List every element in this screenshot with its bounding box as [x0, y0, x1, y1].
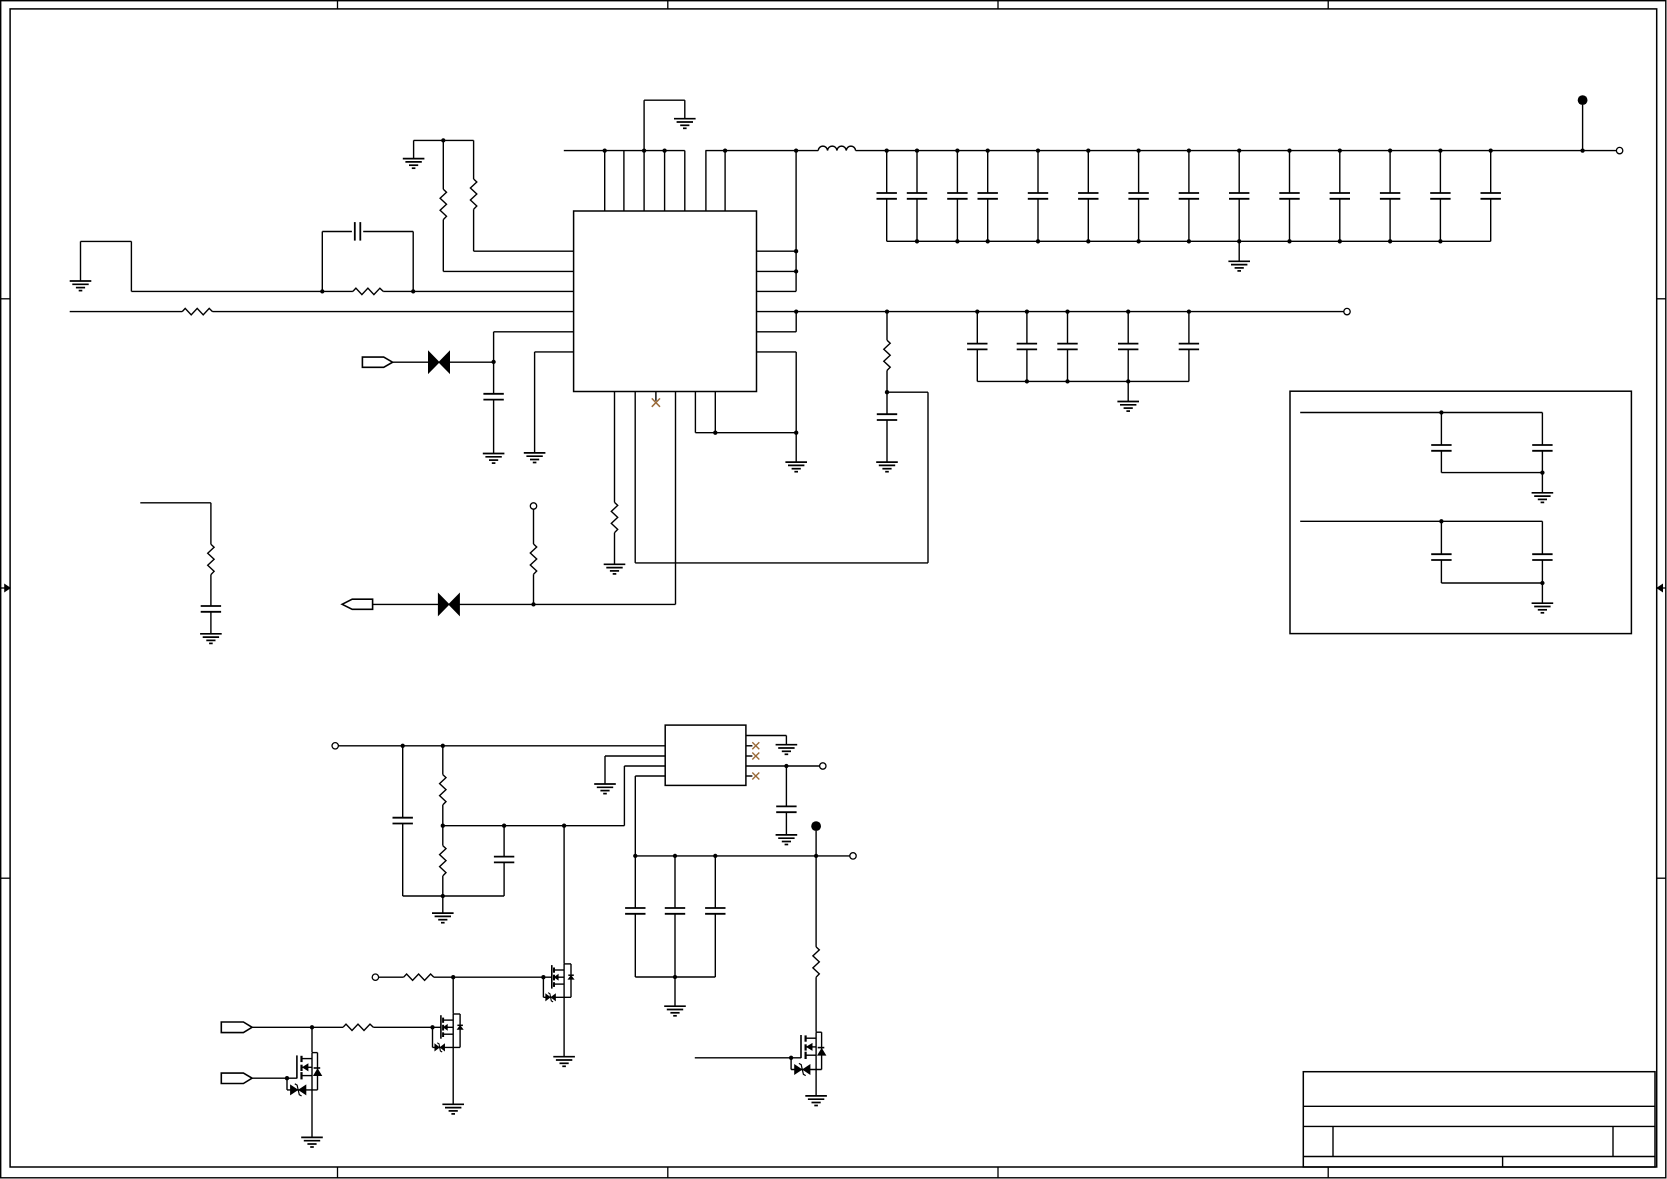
node junction ground rail	[915, 239, 919, 243]
wire Q1 source to ground	[563, 997, 565, 1056]
node junction rail/C14	[1489, 148, 1493, 152]
node junction TVS2	[531, 602, 535, 606]
wire U1 top pin x=705.9	[705, 151, 707, 211]
node junction VOUT rail/C18	[975, 309, 979, 313]
terminal open circle rail	[850, 853, 856, 859]
wire Q3 drain	[311, 1027, 313, 1052]
resistor R5 (in line)	[182, 308, 212, 314]
wire R12 to Q2 gate	[373, 1026, 441, 1028]
wire power dot stem	[1582, 105, 1584, 151]
node junction output rail	[673, 854, 677, 858]
node junction feedback right	[411, 289, 415, 293]
node junction ground rail	[1086, 239, 1090, 243]
wire U2 left pin3 feedback	[624, 766, 665, 826]
regulator U2	[665, 725, 746, 785]
node junction net1 bottom/gnd	[1540, 470, 1544, 474]
node junction rail A x=644.1	[642, 148, 646, 152]
node junction rail/C4	[986, 148, 990, 152]
ground G12	[1532, 603, 1554, 613]
wire ground hook far left	[81, 241, 132, 291]
transistor Q1	[541, 964, 574, 1002]
wire U1 right pin6 down	[757, 352, 797, 462]
ground G3	[70, 281, 92, 291]
node junction rail A x=604.7	[603, 148, 607, 152]
node junction fb/C29	[502, 824, 506, 828]
node junction net2 bottom/gnd	[1540, 581, 1544, 585]
centering arrow left	[1, 584, 11, 591]
node junction VOUT rail/C19	[1025, 309, 1029, 313]
node junction pin5 net/gnd column	[794, 431, 798, 435]
wire VDD rail segment A above U1	[564, 150, 685, 152]
ground G16	[432, 913, 454, 923]
node junction ground rail	[1237, 239, 1241, 243]
node junction VOUT ground rail	[1065, 379, 1069, 383]
node junction VOUT ground rail	[1126, 379, 1130, 383]
title block	[1303, 1072, 1655, 1167]
wire U1 bottom pin4 down	[675, 392, 677, 605]
node junction rail/C5	[1036, 148, 1040, 152]
wire net1 ground stem	[1541, 473, 1543, 493]
wire sub-circuit net 1	[1300, 412, 1542, 414]
wire net long rail (y=311.6) left part	[70, 311, 574, 313]
wire J3 to node	[252, 1026, 343, 1028]
capacitor C21	[1118, 312, 1138, 382]
wire VOUT ground stem	[1127, 381, 1129, 401]
node junction right pin1	[794, 249, 798, 253]
wire U2 left pin4 down	[635, 776, 665, 856]
wire Q2 drain	[452, 977, 454, 1014]
node junction pin6/pin5 net	[713, 431, 717, 435]
node junction feedback left	[320, 289, 324, 293]
node junction ground rail	[1438, 239, 1442, 243]
capacitor C32	[201, 575, 221, 634]
node junction ground rail	[955, 239, 959, 243]
wire divider ground stem	[442, 896, 444, 913]
node junction ground rail	[1136, 239, 1140, 243]
capacitor C13	[1430, 151, 1450, 242]
node junction power stem/rail	[1580, 148, 1584, 152]
node junction output rail	[814, 854, 818, 858]
node junction Q2 drain tap	[451, 975, 455, 979]
wire decoupling ground rail	[887, 240, 1491, 242]
wire Q4 source to ground	[815, 1069, 817, 1096]
resistor R1	[470, 140, 573, 251]
wire pull-up top bar	[414, 139, 474, 141]
connector flag J3	[221, 1022, 252, 1033]
wire stub to RC chain	[140, 503, 211, 545]
node junction net1/C23	[1439, 410, 1443, 414]
wire U1 top pin x=604.7	[604, 151, 606, 211]
node junction output rail	[713, 854, 717, 858]
capacitor C14	[1481, 151, 1501, 242]
wire U1 top pin x=623.9	[623, 151, 625, 211]
terminal open circle U2 out	[820, 763, 826, 769]
wire U1 left pin5	[494, 332, 574, 362]
node junction rail/C2	[915, 148, 919, 152]
node junction R8/C17	[885, 390, 889, 394]
border zone tick top 2	[667, 1, 669, 9]
node junction rail/R8	[885, 309, 889, 313]
capacitor C10	[1279, 151, 1299, 242]
ground G2	[403, 159, 425, 169]
wire net2 ground stem	[1541, 583, 1543, 603]
wire feedback right leg	[412, 232, 414, 292]
transistor Q3	[285, 1053, 322, 1096]
no-connect X U2 pin3	[752, 753, 759, 760]
node junction rail/C6	[1086, 148, 1090, 152]
wire U1 top pin x=664.6	[664, 151, 666, 211]
border zone tick bottom 1	[337, 1167, 339, 1178]
ground G5	[524, 453, 546, 463]
TVS diode D2	[438, 594, 459, 615]
wire D1 to node	[450, 361, 494, 363]
node junction VOUT rail/C22	[1187, 309, 1191, 313]
capacitor C4	[978, 151, 998, 242]
node junction ground rail	[1388, 239, 1392, 243]
node junction fb/Q1 drain	[562, 824, 566, 828]
wire VOUT cap ground rail	[977, 380, 1189, 382]
ground G13	[594, 784, 616, 794]
sub-circuit box	[1290, 391, 1631, 633]
node junction ground rail	[1338, 239, 1342, 243]
wire feedback net (y=825.7)	[443, 825, 625, 827]
wire U2 right pin5 stub	[746, 775, 753, 777]
capacitor C12	[1380, 151, 1400, 242]
ground G18	[553, 1057, 575, 1067]
terminal open circle VIN	[332, 743, 338, 749]
node junction ground rail	[1036, 239, 1040, 243]
connector flag J1	[362, 357, 392, 367]
capacitor C28	[776, 766, 796, 835]
border zone tick left 2	[1, 877, 11, 879]
wire VIN to U2	[338, 745, 665, 747]
node junction VOUT rail/C20	[1065, 309, 1069, 313]
wire Q3 source to ground	[311, 1090, 313, 1138]
wire U1 bottom pin2 loop	[635, 392, 928, 563]
ground G22	[200, 634, 222, 644]
wire U2 right pin1 to ground	[746, 736, 787, 745]
wire U1 left pin6 to ground	[535, 352, 574, 453]
wire LDO output rail (y=855.9)	[635, 855, 850, 857]
capacitor C16	[483, 362, 503, 454]
resistor R9	[440, 746, 446, 826]
capacitor C3	[947, 151, 967, 242]
node junction caps ground rail	[673, 975, 677, 979]
border zone tick bottom 3	[997, 1167, 999, 1178]
capacitor C29	[494, 826, 514, 896]
wire U1 bottom pin5	[695, 392, 796, 433]
capacitor C2	[907, 151, 927, 242]
wire net XTAL1 (y=291.4)	[131, 290, 573, 292]
node junction J3/Q3 drain	[310, 1025, 314, 1029]
wire power dot stem	[815, 831, 817, 856]
connector flag J2	[342, 599, 373, 609]
transistor Q2	[430, 1014, 463, 1052]
node junction ground rail	[986, 239, 990, 243]
node junction rail/C7	[1136, 148, 1140, 152]
resistor R10	[440, 826, 446, 896]
node junction rail B x=796.1	[794, 148, 798, 152]
resistor R6 (U1 bottom pin1 to ground)	[611, 392, 617, 565]
node junction ground rail	[1287, 239, 1291, 243]
terminal open circle 3V3	[1616, 147, 1622, 153]
capacitor C1	[877, 151, 897, 242]
ground G9	[1228, 261, 1250, 271]
terminal open circle sense	[530, 503, 536, 509]
capacitor C23	[1431, 413, 1451, 473]
wire U1 top pin x=684.8	[684, 151, 686, 211]
resistor R11	[404, 974, 434, 980]
node junction ground rail	[1187, 239, 1191, 243]
centering arrow right	[1657, 584, 1666, 591]
node junction rail/C9	[1237, 148, 1241, 152]
capacitor C25	[1431, 521, 1451, 583]
no-connect X U2 pin2	[752, 742, 759, 749]
wire D2 to pin4	[460, 603, 676, 605]
node junction rail/C10	[1287, 148, 1291, 152]
resistor R13	[813, 856, 819, 1032]
node junction rail/pin5	[794, 309, 798, 313]
wire U1 right pin2	[757, 270, 797, 272]
main IC U1	[574, 211, 757, 392]
wire pull-up bar to ground	[413, 140, 415, 158]
wire feedback left leg	[321, 232, 323, 292]
border zone tick top 1	[337, 1, 339, 9]
wire sub-circuit net1 bottom	[1441, 472, 1542, 474]
wire J4 to Q3 gate	[252, 1077, 297, 1079]
wire Q4 gate lead	[695, 1057, 801, 1059]
capacitor C6	[1078, 151, 1098, 242]
wire net VOUT rail (y=311.6) right part	[757, 311, 1345, 313]
wire sub-circuit net2 bottom	[1441, 582, 1542, 584]
no-connect X pin3	[652, 398, 660, 406]
node junction VOUT rail/C21	[1126, 309, 1130, 313]
ground G8	[876, 462, 898, 472]
capacitor C22	[1179, 312, 1199, 382]
wire U1 right pin1	[757, 250, 797, 252]
resistor R14	[208, 544, 214, 574]
wire U1 bottom pin6	[714, 392, 716, 433]
node junction rail/C13	[1438, 148, 1442, 152]
ground G4	[483, 454, 505, 464]
capacitor C30	[625, 856, 645, 977]
node junction rail/C11	[1338, 148, 1342, 152]
capacitor C26	[1532, 521, 1552, 583]
border zone tick top 4	[1327, 1, 1329, 9]
terminal open circle VOUT	[1344, 308, 1350, 314]
node junction right pin2	[794, 269, 798, 273]
ground G14	[776, 745, 798, 755]
ground G15	[776, 835, 798, 845]
wire U2 right pin3 stub	[746, 755, 753, 757]
capacitor C7	[1128, 151, 1148, 242]
wire U2 right pin2 stub	[746, 745, 753, 747]
wire caps ground stem	[674, 977, 676, 1006]
border zone tick left 1	[1, 298, 11, 300]
wire sub-circuit net 2	[1300, 520, 1542, 522]
wire Q1 drain	[563, 826, 565, 964]
node junction out/C28	[784, 764, 788, 768]
capacitor C31	[665, 856, 685, 977]
resistor R8	[884, 312, 890, 393]
node junction divider bottom	[441, 894, 445, 898]
border zone tick right 2	[1657, 877, 1666, 879]
wire U2 right pin4 output	[746, 765, 820, 767]
node junction rail/C8	[1187, 148, 1191, 152]
wire R11 to Q1 gate	[434, 976, 552, 978]
wire VDD rail segment B above U1	[705, 150, 818, 152]
node junction rail A x=664.6	[662, 148, 666, 152]
node junction rail/C1	[885, 148, 889, 152]
resistor R2	[440, 140, 574, 271]
wire ground stem (C9)	[1238, 241, 1240, 261]
wire drive to R11	[379, 976, 404, 978]
ground G21	[805, 1096, 827, 1106]
ground G19	[442, 1104, 464, 1114]
TVS diode D1	[429, 352, 450, 373]
capacitor C15 (series, feedback)	[322, 222, 413, 241]
capacitor C19	[1017, 312, 1037, 382]
capacitor C24	[1532, 413, 1552, 473]
border zone tick bottom 2	[667, 1167, 669, 1178]
capacitor C11	[1330, 151, 1350, 242]
capacitor C8	[1179, 151, 1199, 242]
transistor Q4	[789, 1032, 826, 1075]
resistor R12	[343, 1024, 373, 1030]
wire U2 left pin2 to ground	[605, 756, 665, 784]
node junction net2/C25	[1439, 519, 1443, 523]
wire divider bottom rail	[403, 895, 504, 897]
inductor L1	[818, 146, 855, 150]
capacitor C17	[877, 392, 897, 462]
node junction pull-up bar	[441, 138, 445, 142]
node junction rail B x=725.1	[723, 148, 727, 152]
ground G11	[1532, 493, 1554, 503]
ground G6	[785, 462, 807, 472]
wire ground hook above U1	[644, 100, 685, 150]
wire output caps ground rail	[635, 976, 715, 978]
power node dot rail	[811, 821, 821, 831]
node junction VIN/C27	[401, 744, 405, 748]
ground G20	[301, 1137, 323, 1147]
ground G10	[1117, 402, 1139, 412]
node junction output rail	[633, 854, 637, 858]
no-connect X U2 pin5	[752, 773, 759, 780]
wire U1 right pin3	[757, 290, 797, 292]
power node dot 3V3	[1578, 95, 1588, 105]
terminal open circle gate drive	[372, 974, 378, 980]
capacitor C9	[1229, 151, 1249, 242]
node junction rail/C3	[955, 148, 959, 152]
capacitor C18	[967, 312, 987, 382]
wire 3V3 rail top right	[856, 150, 1617, 152]
wire right vertical from rail B	[795, 151, 797, 292]
capacitor C32	[705, 856, 725, 977]
wire U1 top pin x=644.1	[643, 151, 645, 211]
node junction rail/C12	[1388, 148, 1392, 152]
wire U1 right pin5	[757, 312, 797, 332]
node junction VIN/R9	[441, 744, 445, 748]
resistor R7	[530, 509, 536, 604]
wire J2 to TVS D2	[373, 603, 439, 605]
ground G1 (top hook)	[674, 119, 696, 129]
resistor R4 (in line XTAL1)	[353, 288, 383, 294]
border zone tick bottom 4	[1327, 1167, 1329, 1178]
node junction TVS1	[491, 360, 495, 364]
capacitor C5	[1028, 151, 1048, 242]
capacitor C27	[393, 746, 413, 896]
wire J1 to TVS D1	[393, 361, 429, 363]
wire U1 bottom pin3 stub	[655, 392, 657, 401]
node junction divider mid	[441, 824, 445, 828]
node junction VOUT ground rail	[1025, 379, 1029, 383]
wire Q2 source to ground	[452, 1047, 454, 1104]
connector flag J4	[221, 1073, 252, 1083]
ground G7	[604, 564, 626, 574]
border zone tick top 3	[997, 1, 999, 9]
ground G17	[664, 1006, 686, 1016]
capacitor C20	[1057, 312, 1077, 382]
wire U1 top pin x=725.1	[724, 151, 726, 211]
border zone tick right 1	[1657, 298, 1666, 300]
